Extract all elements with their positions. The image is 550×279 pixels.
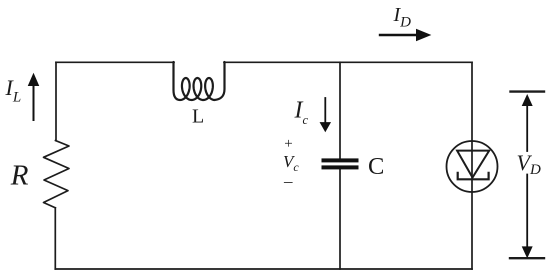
resistor R (44, 141, 70, 208)
current arrow I_L (29, 74, 39, 120)
diode D triangle (457, 151, 489, 178)
svg-text:+: + (284, 136, 292, 152)
svg-text:–: – (283, 172, 293, 191)
wire middle branch lower (339, 169, 341, 269)
current arrow I_c (320, 98, 330, 131)
wire top-right segment (224, 61, 472, 63)
svg-text:R: R (10, 159, 29, 191)
svg-text:Ic: Ic (294, 98, 309, 128)
diode D cathode bracket (458, 173, 489, 180)
current arrow I_D (380, 30, 430, 41)
capacitor C plates (322, 158, 359, 169)
voltage arrow V_D top bar (511, 90, 545, 92)
wire left vertical upper (55, 62, 57, 140)
svg-text:L: L (192, 106, 204, 128)
inductor L (174, 62, 225, 100)
svg-text:VD: VD (517, 150, 541, 178)
svg-text:IL: IL (5, 75, 22, 106)
wire top-left segment (56, 61, 174, 63)
wire left vertical lower (54, 208, 56, 269)
wire middle branch upper (339, 62, 341, 158)
svg-text:ID: ID (393, 4, 412, 31)
voltage arrow V_D double-headed shaft (523, 95, 532, 257)
diode D circle (447, 141, 498, 192)
wire bottom (55, 268, 472, 270)
wire right vertical (471, 62, 473, 269)
svg-text:C: C (368, 153, 384, 180)
voltage arrow V_D bottom bar (510, 257, 544, 259)
